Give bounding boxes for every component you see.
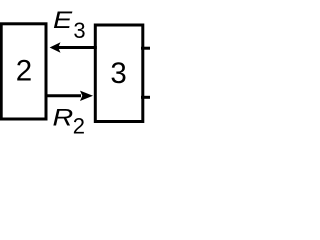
svg-text:3: 3 xyxy=(110,57,126,90)
svg-text:2: 2 xyxy=(16,54,32,87)
svg-text:R: R xyxy=(53,103,74,131)
svg-text:2: 2 xyxy=(73,114,85,139)
svg-text:E: E xyxy=(53,6,73,34)
svg-text:3: 3 xyxy=(73,18,85,43)
